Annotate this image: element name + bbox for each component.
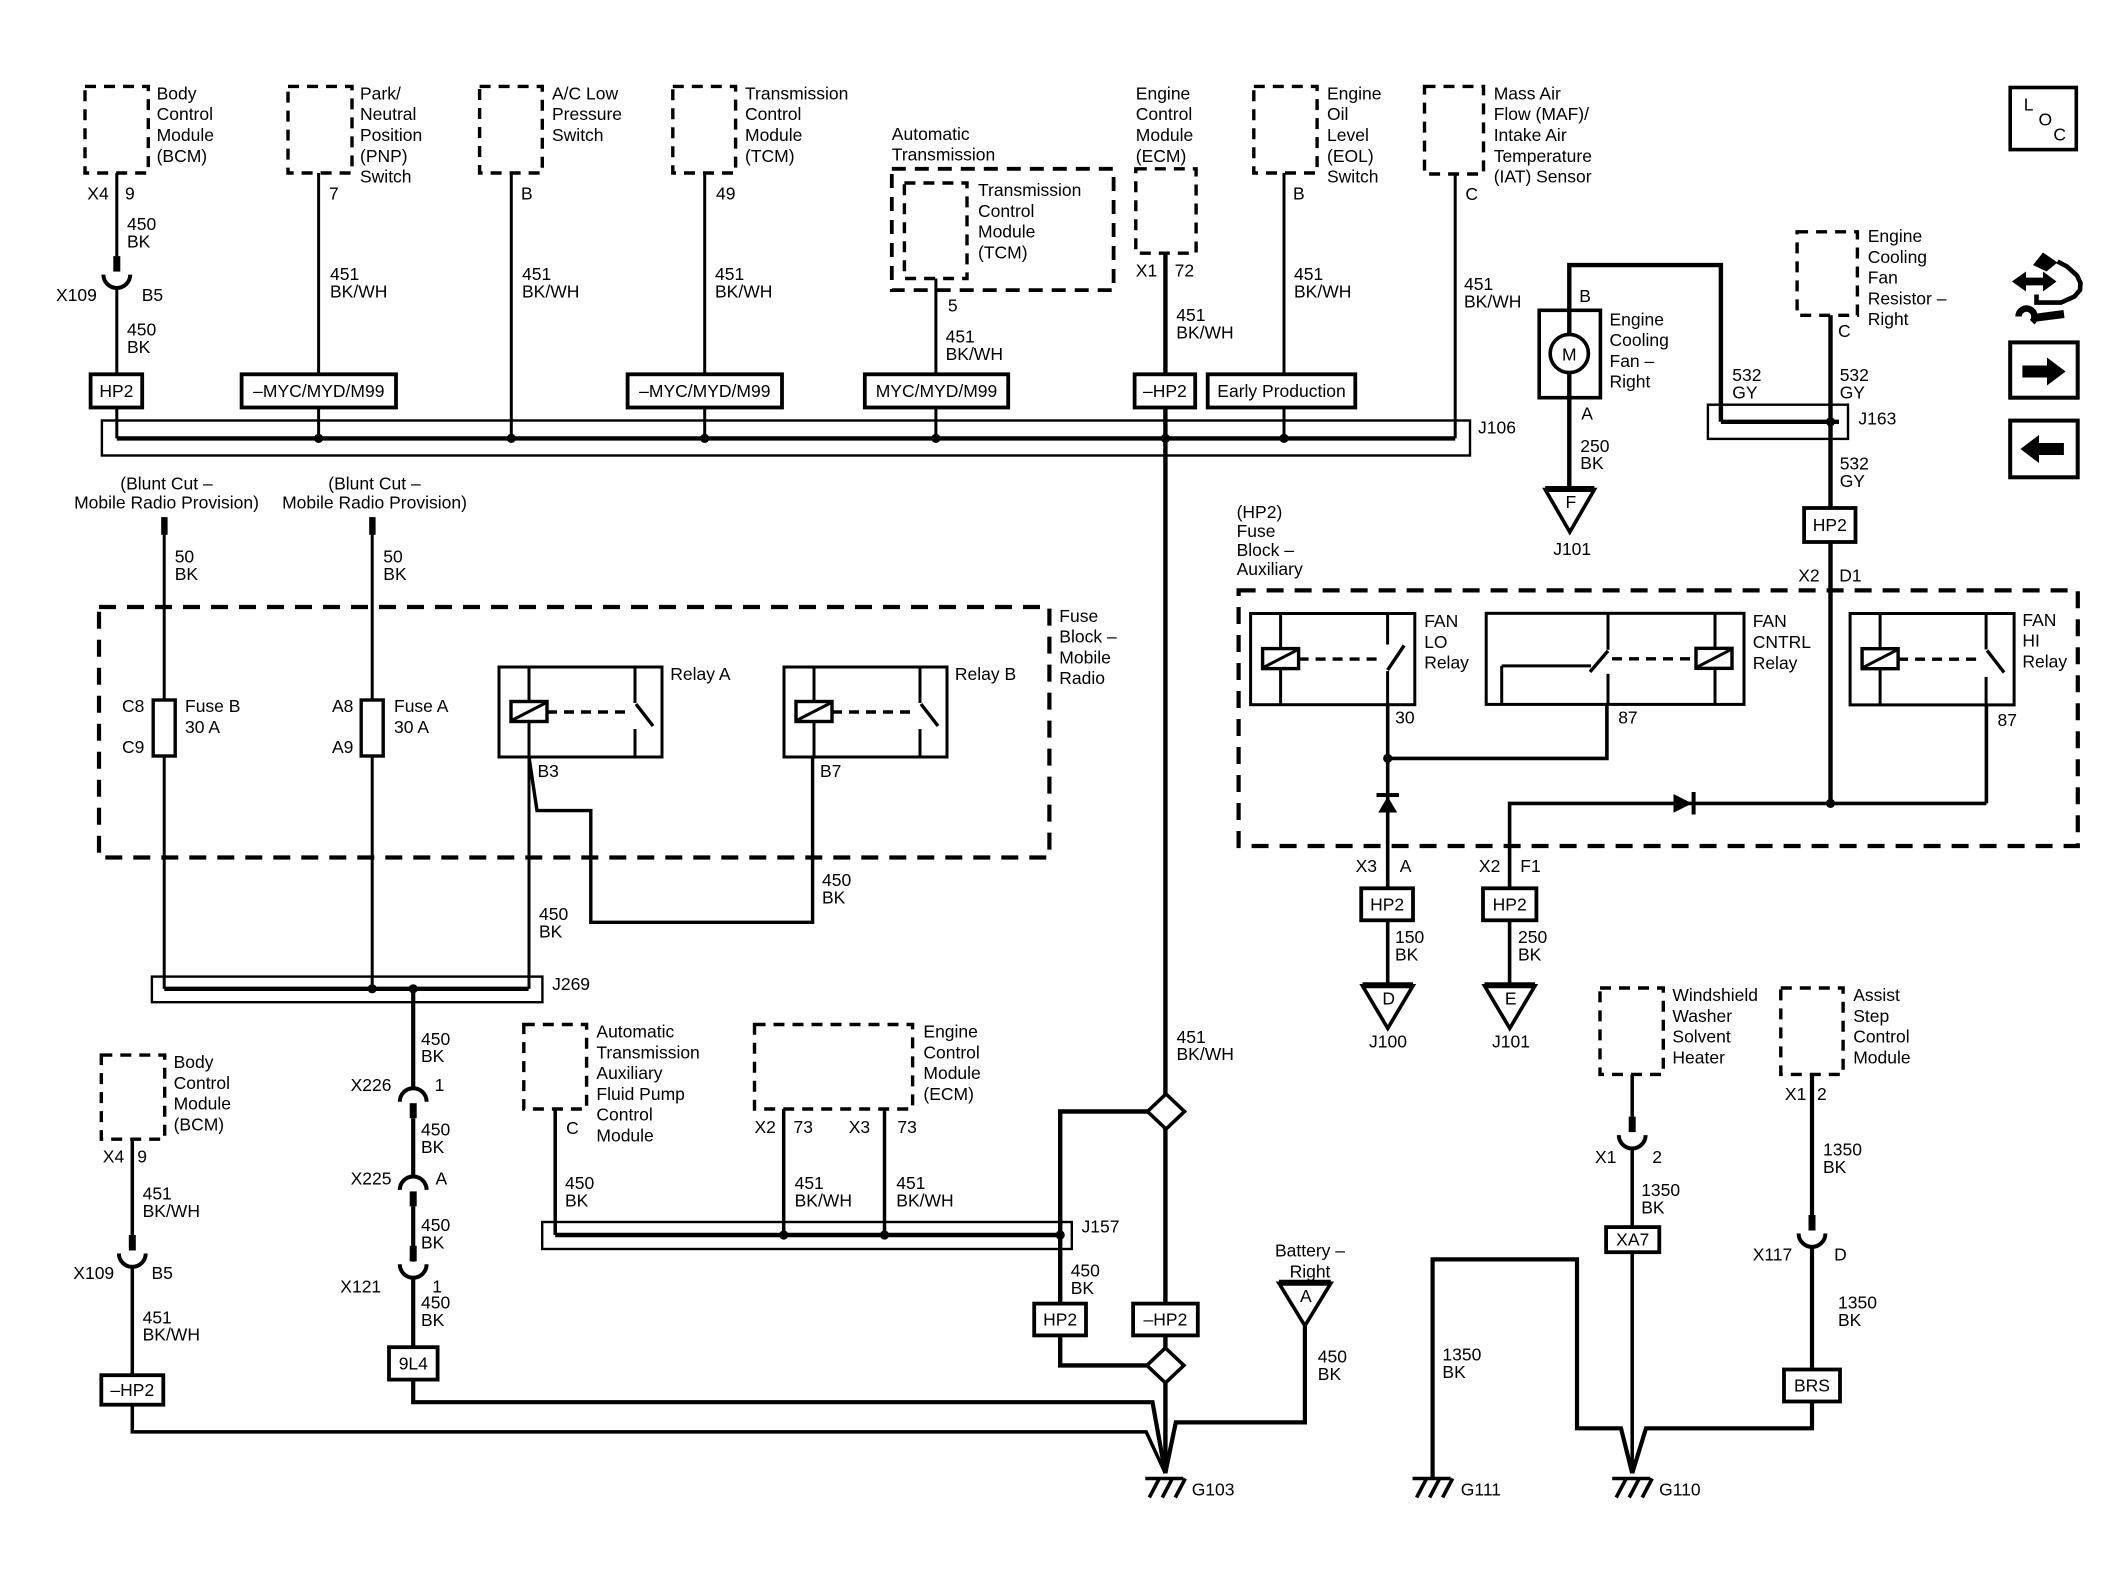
svg-text:X109: X109 xyxy=(73,1263,114,1283)
washer heater label xyxy=(1672,985,1758,1067)
back arrow box xyxy=(2010,421,2078,478)
engine oil level (EOL) switch dashed box xyxy=(1254,86,1317,173)
svg-text:X4: X4 xyxy=(87,184,109,204)
svg-text:Park/: Park/ xyxy=(360,83,401,103)
option box HP2 (ground branch) xyxy=(1034,1304,1086,1336)
label 50 BK (left) xyxy=(175,546,199,583)
wire 450 BK from BCM X4-9 xyxy=(115,173,118,256)
wire 451 BK/WH ECM X3-73 xyxy=(883,1109,887,1235)
park/neutral position switch dashed box xyxy=(288,86,352,173)
svg-text:73: 73 xyxy=(794,1117,813,1137)
svg-text:Module: Module xyxy=(978,222,1035,242)
PNP label xyxy=(360,83,422,186)
svg-text:Washer: Washer xyxy=(1672,1006,1732,1026)
svg-text:BK/WH: BK/WH xyxy=(143,1201,200,1221)
svg-text:X1: X1 xyxy=(1595,1147,1616,1167)
wire HP2 to lower diamond xyxy=(1060,1335,1147,1365)
svg-text:30 A: 30 A xyxy=(394,717,429,737)
svg-text:Control: Control xyxy=(174,1073,230,1093)
option box BRS xyxy=(1784,1370,1840,1402)
wire 450 BK X226-X225 xyxy=(411,1118,415,1176)
A/C switch label xyxy=(552,83,622,145)
svg-text:BK: BK xyxy=(127,337,151,357)
option box HP2 (X3-A) xyxy=(1361,888,1413,920)
svg-text:5: 5 xyxy=(948,295,958,315)
svg-text:(PNP): (PNP) xyxy=(360,146,408,166)
wire 450 BK X225-X121 xyxy=(411,1207,415,1262)
svg-text:HP2: HP2 xyxy=(1813,515,1847,535)
wire 532 GY HP2 to fuse block X2-D1 xyxy=(1828,542,1832,803)
label 451 BK/WH (BCM lower bottom) xyxy=(143,1307,200,1344)
wire 1350 BK G111 jumper xyxy=(1433,1259,1633,1478)
junction dot resistor at J163 xyxy=(1826,417,1835,426)
svg-text:(ECM): (ECM) xyxy=(923,1084,974,1104)
svg-text:A/C Low: A/C Low xyxy=(552,83,618,103)
svg-text:Battery –: Battery – xyxy=(1275,1241,1345,1261)
svg-text:Heater: Heater xyxy=(1672,1047,1725,1067)
svg-text:BK: BK xyxy=(175,564,199,584)
svg-text:FAN: FAN xyxy=(1753,611,1787,631)
svg-text:1: 1 xyxy=(435,1075,445,1095)
option box -HP2 (ground branch) xyxy=(1133,1304,1198,1336)
assist step control module dashed box xyxy=(1781,988,1843,1074)
label 1350 BK (assist lower) xyxy=(1838,1293,1877,1330)
fuse B 30A xyxy=(153,700,175,756)
svg-text:D1: D1 xyxy=(1839,565,1861,585)
svg-text:B5: B5 xyxy=(152,1263,173,1283)
A/C low pressure switch dashed box xyxy=(480,86,543,173)
svg-text:BK: BK xyxy=(565,1191,589,1211)
svg-text:X1: X1 xyxy=(1136,261,1157,281)
svg-text:BK: BK xyxy=(1641,1197,1665,1217)
junction dot X2 at J157 xyxy=(779,1230,788,1239)
svg-text:J101: J101 xyxy=(1553,539,1591,559)
FAN HI relay xyxy=(1850,614,2014,705)
svg-text:72: 72 xyxy=(1175,261,1194,281)
label 451 BK/WH (TCM) xyxy=(715,264,772,301)
wire 450 BK J157 to HP2 box xyxy=(1058,1235,1062,1304)
svg-text:30 A: 30 A xyxy=(185,717,220,737)
svg-text:Module: Module xyxy=(596,1126,653,1146)
svg-text:X226: X226 xyxy=(351,1075,392,1095)
svg-text:BK/WH: BK/WH xyxy=(1294,281,1351,301)
option box -HP2 (ECM branch) xyxy=(1135,374,1196,407)
wire main to ground G103 xyxy=(1163,1381,1167,1473)
svg-text:Control: Control xyxy=(1136,104,1192,124)
svg-text:Resistor –: Resistor – xyxy=(1868,288,1947,308)
svg-text:Pressure: Pressure xyxy=(552,104,622,124)
svg-text:(TCM): (TCM) xyxy=(745,146,795,166)
label 450 BK (relay A) xyxy=(539,904,568,941)
label 50 BK (right) xyxy=(383,546,407,583)
fuse B label xyxy=(185,696,240,737)
svg-text:B3: B3 xyxy=(538,761,559,781)
connector X109 (top) xyxy=(103,256,130,288)
fan resistor label xyxy=(1868,226,1947,329)
svg-text:Relay: Relay xyxy=(1753,653,1798,673)
svg-text:Right: Right xyxy=(1290,1261,1331,1281)
label 451 BK/WH (A/C) xyxy=(522,264,579,301)
label 450 BK (X226-X225) xyxy=(421,1119,450,1156)
svg-text:Auxiliary: Auxiliary xyxy=(1237,559,1303,579)
LOC reference box xyxy=(2010,88,2076,150)
TCM label xyxy=(745,83,848,165)
svg-text:BK: BK xyxy=(539,921,563,941)
label 451 BK/WH (auto trans) xyxy=(946,327,1003,364)
svg-text:9: 9 xyxy=(137,1147,147,1167)
wire 450 BK X121-9L4 xyxy=(411,1277,415,1347)
label FAN LO Relay xyxy=(1424,611,1469,673)
label X121 | 1 xyxy=(340,1276,442,1296)
svg-text:9: 9 xyxy=(125,184,135,204)
option box MYC/MYD/M99 xyxy=(865,374,1008,407)
svg-text:Windshield: Windshield xyxy=(1672,985,1758,1005)
wire 451 BK/WH from BCM lower X4-9 xyxy=(131,1139,135,1235)
junction dot TCM at J106 xyxy=(700,434,709,443)
fuse A 30A xyxy=(361,700,383,756)
svg-text:Transmission: Transmission xyxy=(978,180,1081,200)
svg-text:HP2: HP2 xyxy=(99,381,133,401)
label 1350 BK (G111) xyxy=(1442,1345,1481,1382)
transmission control module (TCM) dashed box xyxy=(673,86,736,173)
svg-text:Fluid Pump: Fluid Pump xyxy=(596,1084,685,1104)
svg-text:Body: Body xyxy=(157,83,197,103)
forward arrow box xyxy=(2010,342,2078,397)
wire X2-F1 to FAN HI 87 xyxy=(1510,803,1987,888)
wire below HP2 to splice J106 xyxy=(115,408,118,439)
svg-text:Block –: Block – xyxy=(1237,540,1295,560)
label 450 BK (9L4) xyxy=(421,1293,450,1330)
BCM label xyxy=(157,83,214,165)
svg-text:Neutral: Neutral xyxy=(360,104,416,124)
svg-text:BK/WH: BK/WH xyxy=(143,1325,200,1345)
label X117 | D xyxy=(1753,1245,1847,1265)
wire 451 BK/WH from PNP pin 7 xyxy=(317,173,320,438)
flag triangle D to J100 xyxy=(1363,985,1414,1028)
svg-text:Control: Control xyxy=(923,1042,979,1062)
option box Early Production xyxy=(1208,374,1356,407)
svg-text:Auxiliary: Auxiliary xyxy=(596,1063,662,1083)
blunt cut label 1 xyxy=(74,473,259,512)
svg-text:X225: X225 xyxy=(351,1169,392,1189)
svg-text:B: B xyxy=(521,184,533,204)
svg-text:BK: BK xyxy=(421,1046,445,1066)
svg-text:J101: J101 xyxy=(1492,1032,1530,1052)
ground G110 symbol xyxy=(1612,1479,1652,1498)
svg-text:(TCM): (TCM) xyxy=(978,242,1028,262)
svg-text:L: L xyxy=(2024,95,2034,115)
svg-text:BK/WH: BK/WH xyxy=(522,281,579,301)
svg-text:C8: C8 xyxy=(122,696,144,716)
svg-text:Control: Control xyxy=(596,1105,652,1125)
svg-text:GY: GY xyxy=(1840,383,1866,403)
engine control module (ECM) lower dashed box xyxy=(755,1025,913,1110)
svg-text:–HP2: –HP2 xyxy=(1144,1310,1188,1330)
svg-text:LO: LO xyxy=(1424,632,1447,652)
svg-text:B: B xyxy=(1293,184,1305,204)
svg-text:HP2: HP2 xyxy=(1493,894,1527,914)
svg-text:Control: Control xyxy=(745,104,801,124)
label 451 BK/WH (MAF) xyxy=(1464,274,1521,311)
svg-text:BK: BK xyxy=(822,887,846,907)
label X109 | B5 (lower) xyxy=(73,1263,173,1283)
label FAN CNTRL Relay xyxy=(1753,611,1812,673)
wire relay A pin B3 to J269 xyxy=(528,757,531,989)
label X226 | 1 xyxy=(351,1075,445,1095)
label 450 BK (X225-X121) xyxy=(421,1215,450,1252)
svg-text:BK: BK xyxy=(1823,1157,1847,1177)
svg-text:(ECM): (ECM) xyxy=(1136,146,1187,166)
svg-text:X117: X117 xyxy=(1753,1245,1793,1265)
junction dot auto trans at J106 xyxy=(931,434,940,443)
label 450 BK (battery) xyxy=(1318,1347,1347,1384)
option diamond lower xyxy=(1147,1348,1184,1383)
svg-text:BK/WH: BK/WH xyxy=(1464,291,1521,311)
label 451 BK/WH (X2) xyxy=(795,1173,852,1210)
label 451 BK/WH (EOL) xyxy=(1294,264,1351,301)
svg-text:GY: GY xyxy=(1732,383,1758,403)
windshield washer solvent heater dashed box xyxy=(1600,988,1663,1074)
body control module (BCM) top dashed box xyxy=(85,86,148,173)
ground G111 symbol xyxy=(1413,1479,1453,1498)
blunt cut terminal 1 xyxy=(161,517,167,535)
pin labels X2 73 X3 73 xyxy=(755,1117,917,1137)
junction dot HP2 branch at J157 xyxy=(1056,1230,1065,1239)
option box -MYC/MYD/M99 (TCM branch) xyxy=(628,374,782,407)
label 250 BK (E) xyxy=(1518,927,1547,964)
svg-text:Switch: Switch xyxy=(1327,167,1379,187)
svg-text:Mobile Radio Provision): Mobile Radio Provision) xyxy=(74,493,259,513)
connector X1 (washer) xyxy=(1619,1117,1646,1149)
svg-text:Oil: Oil xyxy=(1327,104,1348,124)
label 1350 BK (assist upper) xyxy=(1823,1140,1862,1177)
svg-text:Fuse A: Fuse A xyxy=(394,696,449,716)
svg-text:Right: Right xyxy=(1610,372,1651,392)
svg-text:BK: BK xyxy=(421,1233,445,1253)
svg-text:BK/WH: BK/WH xyxy=(795,1191,852,1211)
ECM lower label xyxy=(923,1022,980,1104)
svg-text:Radio: Radio xyxy=(1059,668,1105,688)
svg-text:A8: A8 xyxy=(332,696,353,716)
svg-text:X2: X2 xyxy=(755,1117,776,1137)
svg-text:Automatic: Automatic xyxy=(892,124,970,144)
svg-text:Module: Module xyxy=(745,125,802,145)
wire 451 BK/WH from MAF pin C xyxy=(1454,174,1457,438)
auto trans aux fluid pump control module dashed box xyxy=(524,1025,587,1110)
svg-text:Mobile: Mobile xyxy=(1059,647,1111,667)
engine cooling fan resistor dashed box xyxy=(1797,232,1857,315)
fan motor label xyxy=(1610,309,1669,391)
svg-text:G111: G111 xyxy=(1461,1480,1501,1500)
junction dot EOL at J106 xyxy=(1279,434,1288,443)
label 450 BK (J157 branch) xyxy=(1071,1261,1100,1298)
svg-text:Module: Module xyxy=(923,1063,980,1083)
splice J269 bus xyxy=(152,977,543,1003)
svg-text:A: A xyxy=(1400,856,1412,876)
svg-text:9L4: 9L4 xyxy=(399,1353,428,1373)
pin label X2 | D1 xyxy=(1798,565,1861,585)
svg-text:Intake Air: Intake Air xyxy=(1494,125,1567,145)
svg-text:D: D xyxy=(1382,988,1395,1008)
svg-text:(Blunt Cut –: (Blunt Cut – xyxy=(328,473,421,493)
svg-text:FAN: FAN xyxy=(2022,610,2056,630)
svg-text:49: 49 xyxy=(716,184,735,204)
ground G103 symbol xyxy=(1145,1479,1185,1498)
wire 1350 BK washer to XA7 xyxy=(1630,1148,1634,1227)
svg-text:30: 30 xyxy=(1395,707,1415,727)
wire HP2 to E flag xyxy=(1508,920,1512,983)
wire 451 BK/WH main from ECM X1-72 xyxy=(1163,253,1167,1094)
pin label X4 | 9 (lower) xyxy=(103,1147,147,1167)
svg-text:7: 7 xyxy=(329,184,339,204)
label 532 GY (below J163) xyxy=(1840,454,1869,491)
svg-text:87: 87 xyxy=(1998,710,2017,730)
svg-text:C: C xyxy=(2053,124,2066,144)
wire HP2 branch from diamond to J157 xyxy=(1060,1112,1148,1236)
diode (feed) xyxy=(1674,792,1694,815)
svg-text:J269: J269 xyxy=(552,974,590,994)
svg-text:Transmission: Transmission xyxy=(745,83,848,103)
svg-text:BK/WH: BK/WH xyxy=(946,344,1003,364)
automatic transmission label xyxy=(892,124,995,165)
transmission control module (TCM) inner dashed box xyxy=(904,183,967,279)
label 150 BK xyxy=(1395,927,1424,964)
svg-text:–HP2: –HP2 xyxy=(1143,381,1187,401)
wire XA7 to ground G110 xyxy=(1630,1252,1634,1473)
svg-text:X3: X3 xyxy=(1356,856,1377,876)
pin label X3 | A xyxy=(1356,856,1412,876)
wire 451 BK/WH to -HP2 xyxy=(131,1267,135,1376)
wire 451 BK/WH from TCM pin 49 xyxy=(703,173,706,438)
svg-text:(Blunt Cut –: (Blunt Cut – xyxy=(120,473,213,493)
svg-text:A: A xyxy=(436,1169,448,1189)
svg-text:Step: Step xyxy=(1853,1006,1889,1026)
label FAN HI Relay xyxy=(2022,610,2067,672)
svg-text:Control: Control xyxy=(978,201,1034,221)
option box HP2 (BCM branch) xyxy=(91,374,143,407)
wire FAN HI pin 87 xyxy=(1985,705,1989,804)
svg-text:C9: C9 xyxy=(122,737,144,757)
svg-text:BK: BK xyxy=(1395,944,1419,964)
wire 450 BK battery to G103 xyxy=(1165,1326,1305,1473)
svg-text:J163: J163 xyxy=(1858,408,1896,428)
svg-text:Relay B: Relay B xyxy=(955,664,1016,684)
fuse A label xyxy=(394,696,449,737)
svg-text:E: E xyxy=(1505,988,1517,1008)
svg-text:2: 2 xyxy=(1652,1147,1662,1167)
wire main through -HP2 xyxy=(1163,1128,1167,1349)
assist step label xyxy=(1853,985,1910,1067)
BCM lower label xyxy=(174,1052,231,1134)
option box 9L4 xyxy=(389,1347,438,1379)
svg-text:87: 87 xyxy=(1618,707,1637,727)
svg-text:X109: X109 xyxy=(56,285,97,305)
svg-text:–MYC/MYD/M99: –MYC/MYD/M99 xyxy=(253,381,384,401)
junction dot PNP at J106 xyxy=(314,434,323,443)
label 1350 BK (washer) xyxy=(1641,1180,1680,1217)
svg-text:Relay: Relay xyxy=(1424,653,1469,673)
svg-text:B: B xyxy=(1579,286,1591,306)
svg-text:B7: B7 xyxy=(820,761,841,781)
flag triangle F to J101 xyxy=(1545,489,1594,532)
connector X117 xyxy=(1799,1215,1826,1247)
svg-text:F: F xyxy=(1565,492,1576,512)
fan motor M circle xyxy=(1550,334,1588,372)
svg-text:C: C xyxy=(1838,321,1851,341)
svg-text:Level: Level xyxy=(1327,125,1369,145)
wire fan motor to pin A xyxy=(1567,373,1571,487)
svg-text:FAN: FAN xyxy=(1424,611,1458,631)
svg-text:Switch: Switch xyxy=(552,125,604,145)
svg-text:Engine: Engine xyxy=(1327,83,1382,103)
svg-text:(BCM): (BCM) xyxy=(174,1115,225,1135)
junction dot D1 feed xyxy=(1826,799,1835,808)
svg-text:J106: J106 xyxy=(1478,417,1516,437)
wire 9L4 to ground G103 xyxy=(413,1380,1165,1474)
label 250 BK (fan) xyxy=(1580,436,1609,473)
option box -HP2 (lower) xyxy=(101,1375,163,1405)
engine cooling fan motor box xyxy=(1539,310,1600,397)
svg-text:BK: BK xyxy=(1318,1364,1342,1384)
svg-text:BK/WH: BK/WH xyxy=(715,281,772,301)
svg-text:A: A xyxy=(1300,1286,1312,1306)
svg-text:(BCM): (BCM) xyxy=(157,146,208,166)
engine control module (ECM) top dashed box xyxy=(1136,169,1196,253)
svg-text:Flow (MAF)/: Flow (MAF)/ xyxy=(1494,104,1589,124)
fuse block auxiliary label xyxy=(1237,502,1303,579)
junction dot fuse A at J269 xyxy=(368,984,377,993)
svg-text:X3: X3 xyxy=(849,1117,870,1137)
label X109 | B5 xyxy=(56,285,163,305)
svg-text:(HP2): (HP2) xyxy=(1237,502,1283,522)
svg-text:HI: HI xyxy=(2022,631,2040,651)
option box -MYC/MYD/M99 (PNP branch) xyxy=(242,374,396,407)
label 451 BK/WH (BCM lower upper) xyxy=(143,1183,200,1220)
svg-text:BRS: BRS xyxy=(1794,1376,1830,1396)
wire BRS to ground bus xyxy=(1632,1402,1812,1474)
label 532 GY (right upper) xyxy=(1840,365,1869,402)
label C8/C9 xyxy=(122,696,144,757)
related-info icon (arrows and wrench) xyxy=(2012,253,2081,323)
svg-text:Fuse: Fuse xyxy=(1237,521,1276,541)
svg-text:Engine: Engine xyxy=(1136,83,1191,103)
wire fan B loop to J163 xyxy=(1569,265,1721,422)
relay B xyxy=(784,667,947,757)
label 450 BK (aux pump) xyxy=(565,1173,594,1210)
wire -HP2 to ground G103 xyxy=(132,1405,1165,1474)
flag triangle E to J101 xyxy=(1485,985,1536,1028)
wire 450 BK from aux pump pin C xyxy=(553,1109,557,1235)
svg-text:C: C xyxy=(566,1118,579,1138)
wire assist X1-2 xyxy=(1810,1074,1814,1215)
option box HP2 (fan feed) xyxy=(1804,508,1855,542)
label 451 BK/WH (X3) xyxy=(896,1173,953,1210)
svg-text:(IAT) Sensor: (IAT) Sensor xyxy=(1494,167,1592,187)
svg-text:Cooling: Cooling xyxy=(1610,330,1669,350)
option diamond upper xyxy=(1148,1094,1185,1129)
svg-text:Fan: Fan xyxy=(1868,268,1898,288)
svg-text:Fan –: Fan – xyxy=(1610,351,1655,371)
junction dot ECM at J106 xyxy=(1161,434,1170,443)
svg-text:X2: X2 xyxy=(1479,856,1500,876)
svg-text:O: O xyxy=(2039,110,2053,130)
pin label X1 | 72 xyxy=(1136,261,1194,281)
svg-text:Module: Module xyxy=(174,1094,231,1114)
pin label X2 | F1 xyxy=(1479,856,1541,876)
svg-text:Control: Control xyxy=(1853,1027,1909,1047)
svg-text:Automatic: Automatic xyxy=(596,1022,674,1042)
svg-text:Module: Module xyxy=(1853,1047,1910,1067)
